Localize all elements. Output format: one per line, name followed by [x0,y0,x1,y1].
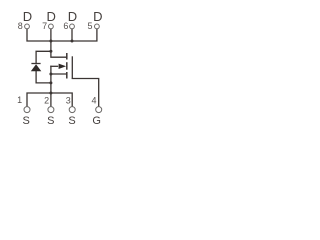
svg-text:1: 1 [17,95,22,105]
pin 5 terminal circle [95,24,100,29]
wire source bus (bottom horizontal, pins 1-3) [27,93,72,106]
junction source stub / source vertical [49,73,52,76]
pin 1 terminal circle [24,107,30,113]
wire pin 2 / source vertical [50,66,52,106]
svg-text:S: S [23,115,30,127]
svg-text:4: 4 [91,96,96,106]
wire gate lead to pin 4 [72,79,98,107]
wire MOSFET body connection to arrow [51,65,58,67]
wire pin 7 vertical to MOSFET drain [51,29,66,57]
svg-text:D: D [23,9,32,24]
wire pin 6 stub to drain bus [71,29,73,41]
svg-text:8: 8 [18,21,23,31]
wire MOSFET source stub [51,73,66,75]
svg-text:S: S [68,115,75,127]
diode D (body diode) cathode bar [31,63,40,65]
pin 2 terminal circle [48,107,54,113]
pin 4 terminal circle [96,107,102,113]
junction pin6/drain bus [71,40,74,43]
MOSFET channel segment top (drain) [66,53,68,60]
MOSFET body arrow (points to channel) [59,64,67,69]
diode D anode triangle [31,64,42,71]
pin 3 terminal circle [69,107,75,113]
wire diode cathode to node on pin7 vertical [36,51,51,63]
MOSFET channel segment middle (body) [66,62,68,69]
junction pin7/drain bus [49,40,52,43]
svg-text:7: 7 [42,21,47,31]
junction pin2 / source bus [49,92,52,95]
junction diode anode / source vertical [49,81,52,84]
svg-text:D: D [68,9,77,24]
svg-text:D: D [47,9,56,24]
MOSFET gate bar [71,56,73,78]
MOSFET channel segment bottom (source) [66,72,68,79]
wire diode anode to source vertical [36,71,51,83]
svg-text:G: G [92,115,101,127]
svg-text:3: 3 [66,96,71,106]
svg-text:2: 2 [44,95,49,105]
svg-text:6: 6 [63,21,68,31]
svg-text:S: S [47,115,54,127]
svg-text:D: D [93,9,102,24]
pin 6 terminal circle [70,24,75,29]
pin 7 terminal circle [49,24,54,29]
junction diode cathode / pin7 vertical [49,50,52,53]
pin 8 terminal circle [25,24,30,29]
wire drain bus (top horizontal, pins 8-5) [27,29,97,41]
svg-text:5: 5 [87,21,92,31]
